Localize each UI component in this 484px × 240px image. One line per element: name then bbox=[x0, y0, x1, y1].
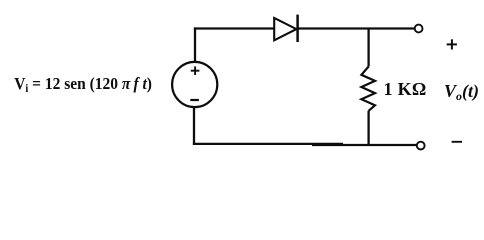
wire: resistor top lead from top rail bbox=[367, 29, 369, 67]
wire: bottom-left vertical from source bottom to bottom rail bbox=[193, 107, 195, 145]
label: plus output polarity bbox=[447, 43, 457, 45]
svg-text:Vi = 12 sen (120 π f t): Vi = 12 sen (120 π f t) bbox=[14, 75, 152, 96]
svg-text:1 KΩ: 1 KΩ bbox=[384, 79, 427, 99]
wire: bottom rail right overlapping segment bbox=[312, 144, 417, 146]
voltage source minus sign bbox=[190, 99, 199, 101]
wire: top rail right segment (cathode to top terminal) bbox=[298, 27, 414, 29]
voltage source plus sign bbox=[191, 70, 200, 72]
label: minus output polarity bbox=[452, 141, 462, 143]
voltage source V1 circle bbox=[172, 62, 217, 107]
node: bottom terminal open circle bbox=[417, 142, 425, 150]
resistor R1 zigzag bbox=[361, 67, 375, 111]
wire: resistor bottom lead to bottom rail bbox=[367, 111, 369, 145]
diode D1 triangle bbox=[274, 18, 296, 40]
wire: top-left vertical from source top to top rail bbox=[194, 27, 196, 62]
wire: top rail left segment (corner to diode anode) bbox=[194, 27, 275, 29]
svg-text:Vo(t): Vo(t) bbox=[444, 81, 479, 103]
node: top terminal open circle bbox=[415, 25, 423, 33]
wire: bottom rail left segment bbox=[193, 143, 343, 145]
diode D1 cathode bar bbox=[296, 15, 299, 42]
